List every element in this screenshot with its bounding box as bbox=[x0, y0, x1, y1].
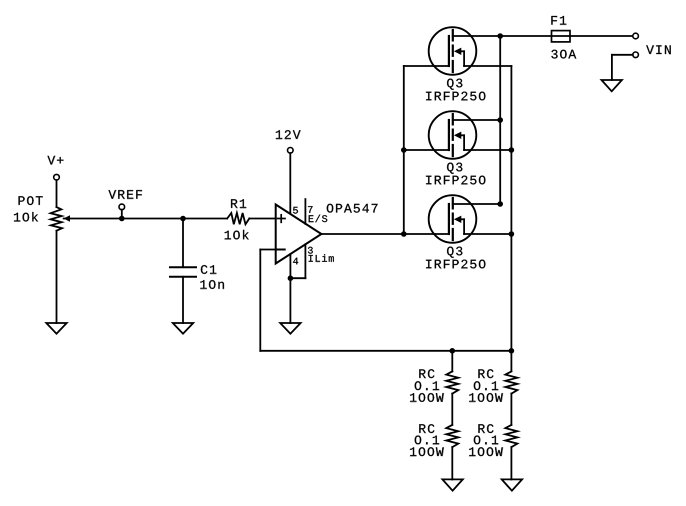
wire drain node to fuse F1 and VIN bbox=[500, 35, 633, 37]
wire op-amp - input bbox=[260, 249, 275, 251]
label 10n (C1 value) bbox=[200, 280, 224, 289]
label RC (B1 ref des) bbox=[478, 369, 493, 378]
junction gate rail / op-amp output bbox=[401, 231, 407, 237]
wire VREF node horizontal bbox=[64, 218, 227, 220]
wire Q3 mid drain lead bbox=[453, 119, 500, 121]
label Q3 (bottom ref des) bbox=[447, 247, 462, 258]
wire RC A1 to RC A2 bbox=[451, 394, 453, 425]
wire Q3 bottom drain lead bbox=[453, 203, 500, 205]
junction VREF bbox=[119, 216, 125, 222]
label IRFP250 (middle value) bbox=[426, 176, 485, 185]
pin 7 stub wire bbox=[304, 199, 306, 224]
capacitor C1 plates bbox=[170, 267, 196, 277]
resistor RC A2 body bbox=[446, 425, 458, 447]
junction gate rail / Q3 mid gate bbox=[401, 147, 407, 153]
wire Q3 top source lead bbox=[464, 65, 511, 67]
wire Q3 top gate lead bbox=[404, 65, 449, 67]
op-amp + input marker bbox=[278, 215, 286, 223]
node VIN- terminal bbox=[633, 52, 639, 58]
wire feedback horizontal sense node bbox=[260, 350, 511, 352]
label IRFP250 (bottom value) bbox=[426, 260, 485, 269]
label 0.1 (A1 value) bbox=[415, 381, 439, 390]
label Q3 (top ref des) bbox=[447, 79, 462, 90]
label Q3 (middle ref des) bbox=[447, 163, 462, 174]
wire 12V to op-amp pin 5 bbox=[289, 153, 291, 214]
label 0.1 (B1 value) bbox=[474, 381, 498, 390]
label 12V (power net) bbox=[276, 130, 301, 139]
wire RC B2 to ground bbox=[510, 447, 512, 479]
ground symbol (POT) bbox=[46, 323, 66, 334]
label RC (A1 ref des) bbox=[419, 369, 434, 378]
pin name E/S bbox=[309, 215, 328, 223]
wire Q3 top drain lead bbox=[453, 35, 500, 37]
transistor Q3 IRFP250 (middle) MOSFET symbol bbox=[429, 111, 477, 159]
label OPA547 (part number) bbox=[327, 204, 378, 213]
label RC (A2 ref des) bbox=[419, 424, 434, 433]
resistor RC A1 body bbox=[446, 371, 458, 393]
ground symbol (RC column B) bbox=[502, 479, 522, 490]
label 0.1 (B2 value) bbox=[474, 436, 498, 445]
junction drain rail middle bbox=[497, 117, 503, 123]
label 100W (B1 rating) bbox=[469, 393, 503, 402]
wire drain rail bbox=[499, 36, 501, 204]
op-amp U1 OPA547 triangle bbox=[276, 205, 322, 264]
pin name ILim bbox=[309, 254, 334, 261]
junction C1 top bbox=[180, 216, 186, 222]
wire source rail bbox=[510, 66, 512, 371]
label VIN (net name) bbox=[646, 45, 671, 54]
wire V+ to POT bbox=[56, 180, 58, 207]
wire gate rail bbox=[403, 66, 405, 234]
pin 3 wire bbox=[304, 244, 306, 278]
junction drain rail bottom bbox=[497, 201, 503, 207]
wire pin3 to pin4 link bbox=[290, 277, 305, 279]
wire VREF stub bbox=[121, 210, 123, 219]
label 10k (POT value) bbox=[14, 212, 38, 222]
wire POT to ground bbox=[56, 231, 58, 323]
wire sense node to RC A1 bbox=[451, 351, 453, 372]
ground symbol (VIN return) bbox=[602, 80, 622, 91]
wire op-amp output to MOSFET gates bbox=[321, 233, 449, 235]
pin number 5 bbox=[293, 207, 298, 214]
label 100W (A1 rating) bbox=[410, 393, 444, 402]
label 10k (R1 value) bbox=[225, 230, 249, 240]
junction drain rail top bbox=[497, 33, 503, 39]
junction source rail bottom bbox=[509, 231, 515, 237]
junction sense node column A bbox=[450, 348, 456, 354]
wire RC B1 to RC B2 bbox=[510, 394, 512, 425]
node VREF terminal bbox=[119, 204, 125, 210]
wire C1 top lead bbox=[182, 219, 184, 267]
wire R1 to op-amp + input bbox=[249, 218, 275, 220]
node 12V terminal bbox=[288, 148, 294, 154]
label 100W (B2 rating) bbox=[469, 447, 503, 456]
label RC (B2 ref des) bbox=[478, 424, 493, 433]
pin number 3 bbox=[308, 247, 313, 254]
label F1 (ref des) bbox=[551, 16, 566, 25]
fuse F1 body bbox=[552, 31, 571, 42]
label VREF (net name) bbox=[108, 190, 142, 199]
junction pin3/pin4 bbox=[288, 275, 294, 281]
label 0.1 (A2 value) bbox=[415, 436, 439, 445]
resistor RC B2 body bbox=[505, 425, 517, 447]
op-amp - input marker bbox=[277, 249, 284, 251]
junction source rail middle bbox=[509, 147, 515, 153]
wire Q3 mid source lead bbox=[464, 149, 511, 151]
wire RC A2 to ground bbox=[451, 447, 453, 479]
transistor Q3 IRFP250 (top) MOSFET symbol bbox=[429, 27, 477, 75]
junction sense node column B bbox=[509, 348, 515, 354]
wire VIN- to ground bbox=[611, 55, 613, 80]
pin number 4 bbox=[293, 258, 298, 265]
transistor Q3 IRFP250 (bottom) MOSFET symbol bbox=[429, 195, 477, 243]
label IRFP250 (top value) bbox=[426, 92, 485, 101]
potentiometer POT wiper arrow bbox=[64, 215, 71, 222]
label 30A (F1 rating) bbox=[551, 50, 576, 59]
resistor R1 body bbox=[227, 213, 249, 224]
wire Q3 mid gate lead bbox=[404, 149, 449, 151]
label 100W (A2 rating) bbox=[410, 447, 444, 456]
ground symbol (C1) bbox=[173, 323, 193, 334]
wire feedback vertical bbox=[259, 250, 261, 351]
ground symbol (op-amp pin 4) bbox=[280, 323, 300, 334]
pin 4 wire to ground bbox=[289, 254, 291, 323]
wire Q3 bottom source lead bbox=[464, 233, 511, 235]
ground symbol (RC column A) bbox=[442, 479, 462, 490]
label V+ (node name) bbox=[47, 156, 63, 165]
wire VIN- horizontal bbox=[612, 54, 633, 56]
label POT (ref des) bbox=[19, 196, 43, 205]
wire C1 bottom lead bbox=[182, 277, 184, 323]
pin number 7 bbox=[308, 206, 312, 213]
label R1 (ref des) bbox=[231, 199, 246, 208]
resistor RC B1 body bbox=[505, 371, 517, 393]
label C1 (ref des) bbox=[201, 265, 216, 274]
node VIN+ terminal bbox=[633, 33, 639, 39]
node V+ terminal bbox=[54, 174, 60, 180]
potentiometer POT body bbox=[51, 207, 63, 231]
